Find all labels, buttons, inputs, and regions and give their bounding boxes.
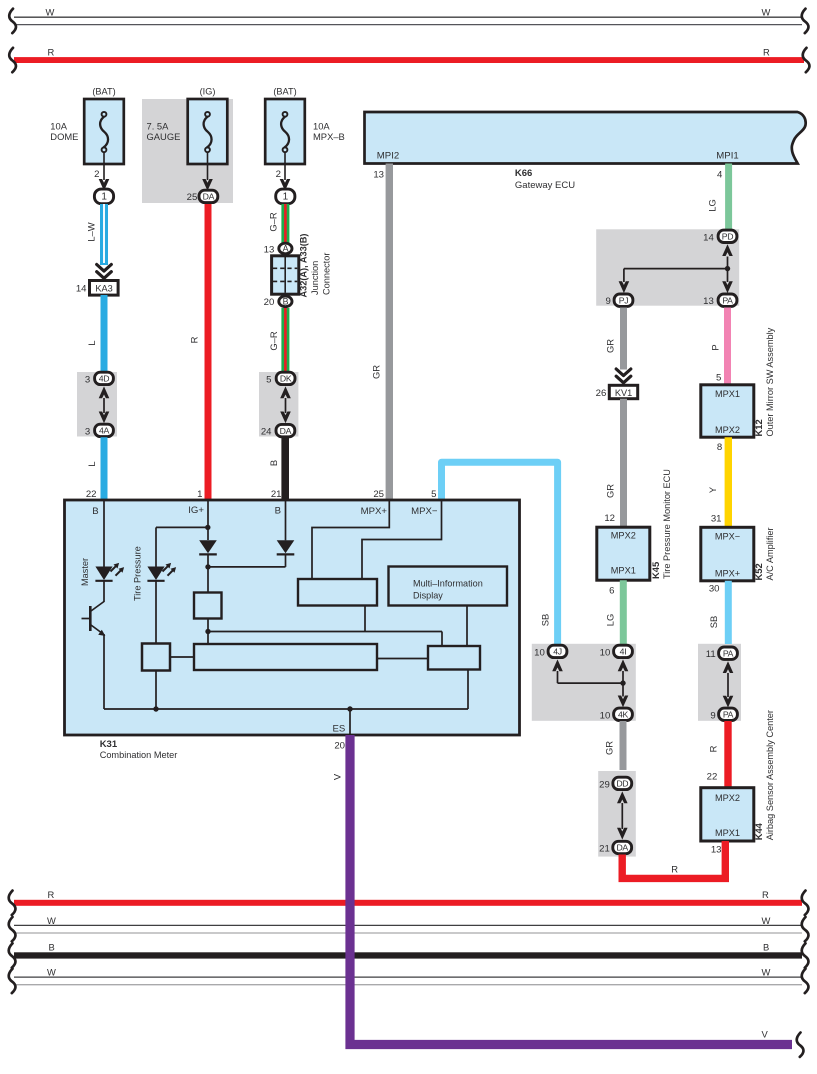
svg-text:K66: K66 (515, 168, 532, 179)
svg-text:K12: K12 (753, 419, 764, 436)
svg-text:R: R (708, 745, 719, 752)
svg-text:K44: K44 (753, 822, 764, 840)
svg-text:5: 5 (716, 372, 721, 383)
svg-text:Display: Display (413, 591, 443, 601)
svg-text:R: R (763, 46, 770, 57)
svg-text:4D: 4D (99, 374, 110, 384)
svg-text:MPX1: MPX1 (611, 565, 636, 575)
svg-text:DOME: DOME (50, 131, 78, 142)
svg-text:MPI2: MPI2 (377, 150, 399, 161)
svg-text:Y: Y (707, 486, 718, 493)
svg-text:5: 5 (266, 375, 271, 386)
svg-text:V: V (332, 773, 343, 780)
svg-text:(BAT): (BAT) (92, 86, 115, 96)
svg-text:PD: PD (722, 232, 733, 242)
svg-text:Junction: Junction (310, 261, 320, 295)
svg-text:K31: K31 (100, 739, 118, 750)
svg-text:W: W (46, 6, 55, 17)
svg-text:DA: DA (203, 192, 215, 202)
svg-text:GR: GR (605, 339, 616, 353)
svg-text:MPX+: MPX+ (715, 568, 740, 578)
svg-text:MPX2: MPX2 (715, 793, 740, 803)
svg-text:MPX+: MPX+ (361, 506, 388, 517)
svg-text:GR: GR (371, 365, 382, 379)
svg-text:DK: DK (280, 374, 292, 384)
svg-text:P: P (710, 344, 721, 350)
svg-text:30: 30 (709, 584, 720, 595)
svg-text:PJ: PJ (619, 295, 629, 305)
svg-text:13: 13 (711, 845, 722, 856)
svg-text:9: 9 (605, 296, 610, 307)
svg-text:4I: 4I (620, 647, 627, 657)
svg-text:Combination Meter: Combination Meter (100, 750, 178, 760)
svg-text:Gateway ECU: Gateway ECU (515, 180, 575, 191)
svg-text:PA: PA (723, 648, 734, 658)
svg-text:12: 12 (604, 513, 615, 524)
svg-text:MPX−: MPX− (411, 506, 438, 517)
svg-text:29: 29 (599, 779, 610, 790)
svg-text:A32(A), A33(B): A32(A), A33(B) (298, 234, 308, 298)
svg-text:24: 24 (261, 427, 272, 438)
svg-text:W: W (762, 6, 771, 17)
svg-text:KV1: KV1 (615, 388, 632, 398)
svg-text:L: L (86, 461, 97, 466)
svg-text:ES: ES (332, 724, 345, 735)
svg-text:GR: GR (605, 484, 616, 498)
svg-text:DA: DA (280, 426, 292, 436)
svg-text:MPX−: MPX− (715, 531, 740, 541)
svg-text:MPX1: MPX1 (715, 389, 740, 399)
svg-text:SB: SB (539, 614, 550, 627)
svg-text:3: 3 (85, 427, 90, 438)
svg-text:R: R (48, 889, 55, 900)
svg-text:13: 13 (373, 169, 384, 180)
svg-text:Master: Master (80, 558, 90, 586)
svg-text:K52: K52 (753, 563, 764, 580)
svg-text:10: 10 (600, 647, 611, 658)
svg-text:B: B (275, 505, 281, 516)
svg-text:1: 1 (101, 192, 107, 203)
svg-text:SB: SB (708, 616, 719, 629)
svg-text:MPX2: MPX2 (611, 531, 636, 541)
svg-text:Multi–Information: Multi–Information (413, 579, 483, 589)
svg-text:GAUGE: GAUGE (147, 131, 181, 142)
svg-text:A: A (283, 244, 289, 254)
svg-text:14: 14 (76, 284, 87, 295)
svg-text:MPI1: MPI1 (716, 150, 738, 161)
svg-text:3: 3 (85, 375, 90, 386)
svg-text:DA: DA (616, 843, 628, 853)
svg-text:Outer Mirror SW Assembly: Outer Mirror SW Assembly (765, 327, 775, 436)
svg-text:R: R (762, 889, 769, 900)
svg-text:Airbag Sensor Assembly Center: Airbag Sensor Assembly Center (765, 710, 775, 840)
svg-text:Tire Pressure: Tire Pressure (133, 546, 143, 601)
svg-text:11: 11 (706, 649, 716, 660)
svg-text:GR: GR (604, 741, 615, 755)
svg-text:20: 20 (334, 741, 345, 752)
svg-text:21: 21 (599, 844, 610, 855)
svg-text:2: 2 (276, 169, 281, 180)
svg-text:26: 26 (596, 388, 607, 399)
svg-text:1: 1 (283, 192, 289, 203)
svg-text:B: B (49, 941, 55, 952)
svg-text:5: 5 (431, 489, 436, 500)
svg-text:K45: K45 (650, 562, 661, 579)
svg-text:W: W (762, 915, 771, 926)
svg-text:MPX–B: MPX–B (313, 131, 345, 142)
svg-text:PA: PA (723, 710, 734, 720)
svg-text:21: 21 (271, 489, 282, 500)
svg-text:W: W (47, 967, 56, 978)
svg-text:8: 8 (717, 442, 722, 453)
svg-text:1: 1 (197, 489, 202, 500)
svg-text:Connector: Connector (321, 253, 331, 295)
svg-text:22: 22 (707, 771, 718, 782)
svg-text:KA3: KA3 (95, 284, 112, 294)
svg-text:B: B (268, 460, 279, 466)
svg-text:DD: DD (616, 779, 628, 789)
svg-text:13: 13 (264, 244, 275, 255)
svg-text:(IG): (IG) (200, 86, 216, 96)
svg-text:B: B (92, 506, 98, 517)
svg-text:MPX2: MPX2 (715, 425, 740, 435)
svg-text:(BAT): (BAT) (273, 86, 296, 96)
svg-text:L–W: L–W (86, 222, 97, 241)
svg-text:G–R: G–R (268, 212, 279, 232)
svg-text:25: 25 (187, 192, 198, 203)
svg-text:L: L (86, 340, 97, 345)
svg-text:MPX1: MPX1 (715, 828, 740, 838)
svg-text:10: 10 (600, 710, 611, 721)
svg-text:W: W (47, 915, 56, 926)
svg-text:R: R (189, 336, 200, 343)
svg-text:2: 2 (94, 169, 99, 180)
svg-text:22: 22 (86, 489, 97, 500)
svg-text:10: 10 (534, 647, 545, 658)
svg-text:B: B (763, 941, 769, 952)
svg-text:G–R: G–R (268, 331, 279, 351)
svg-text:LG: LG (605, 614, 616, 627)
svg-text:W: W (762, 967, 771, 978)
svg-text:4: 4 (717, 169, 723, 180)
svg-text:14: 14 (703, 232, 714, 243)
svg-text:31: 31 (711, 513, 722, 524)
svg-text:PA: PA (722, 295, 733, 305)
svg-text:LG: LG (707, 199, 718, 212)
svg-text:25: 25 (373, 489, 384, 500)
svg-text:9: 9 (710, 710, 715, 721)
svg-text:13: 13 (703, 296, 714, 307)
svg-text:V: V (762, 1029, 769, 1040)
svg-text:R: R (671, 863, 678, 874)
svg-text:IG+: IG+ (188, 505, 204, 516)
svg-text:A/C Amplifier: A/C Amplifier (765, 527, 775, 580)
svg-text:4J: 4J (553, 647, 562, 657)
svg-text:4A: 4A (99, 426, 110, 436)
svg-text:R: R (48, 46, 55, 57)
svg-text:B: B (283, 297, 289, 307)
svg-text:20: 20 (264, 297, 275, 308)
svg-text:4K: 4K (618, 710, 629, 720)
svg-text:Tire Pressure Monitor ECU: Tire Pressure Monitor ECU (662, 469, 672, 579)
svg-text:6: 6 (609, 586, 614, 597)
